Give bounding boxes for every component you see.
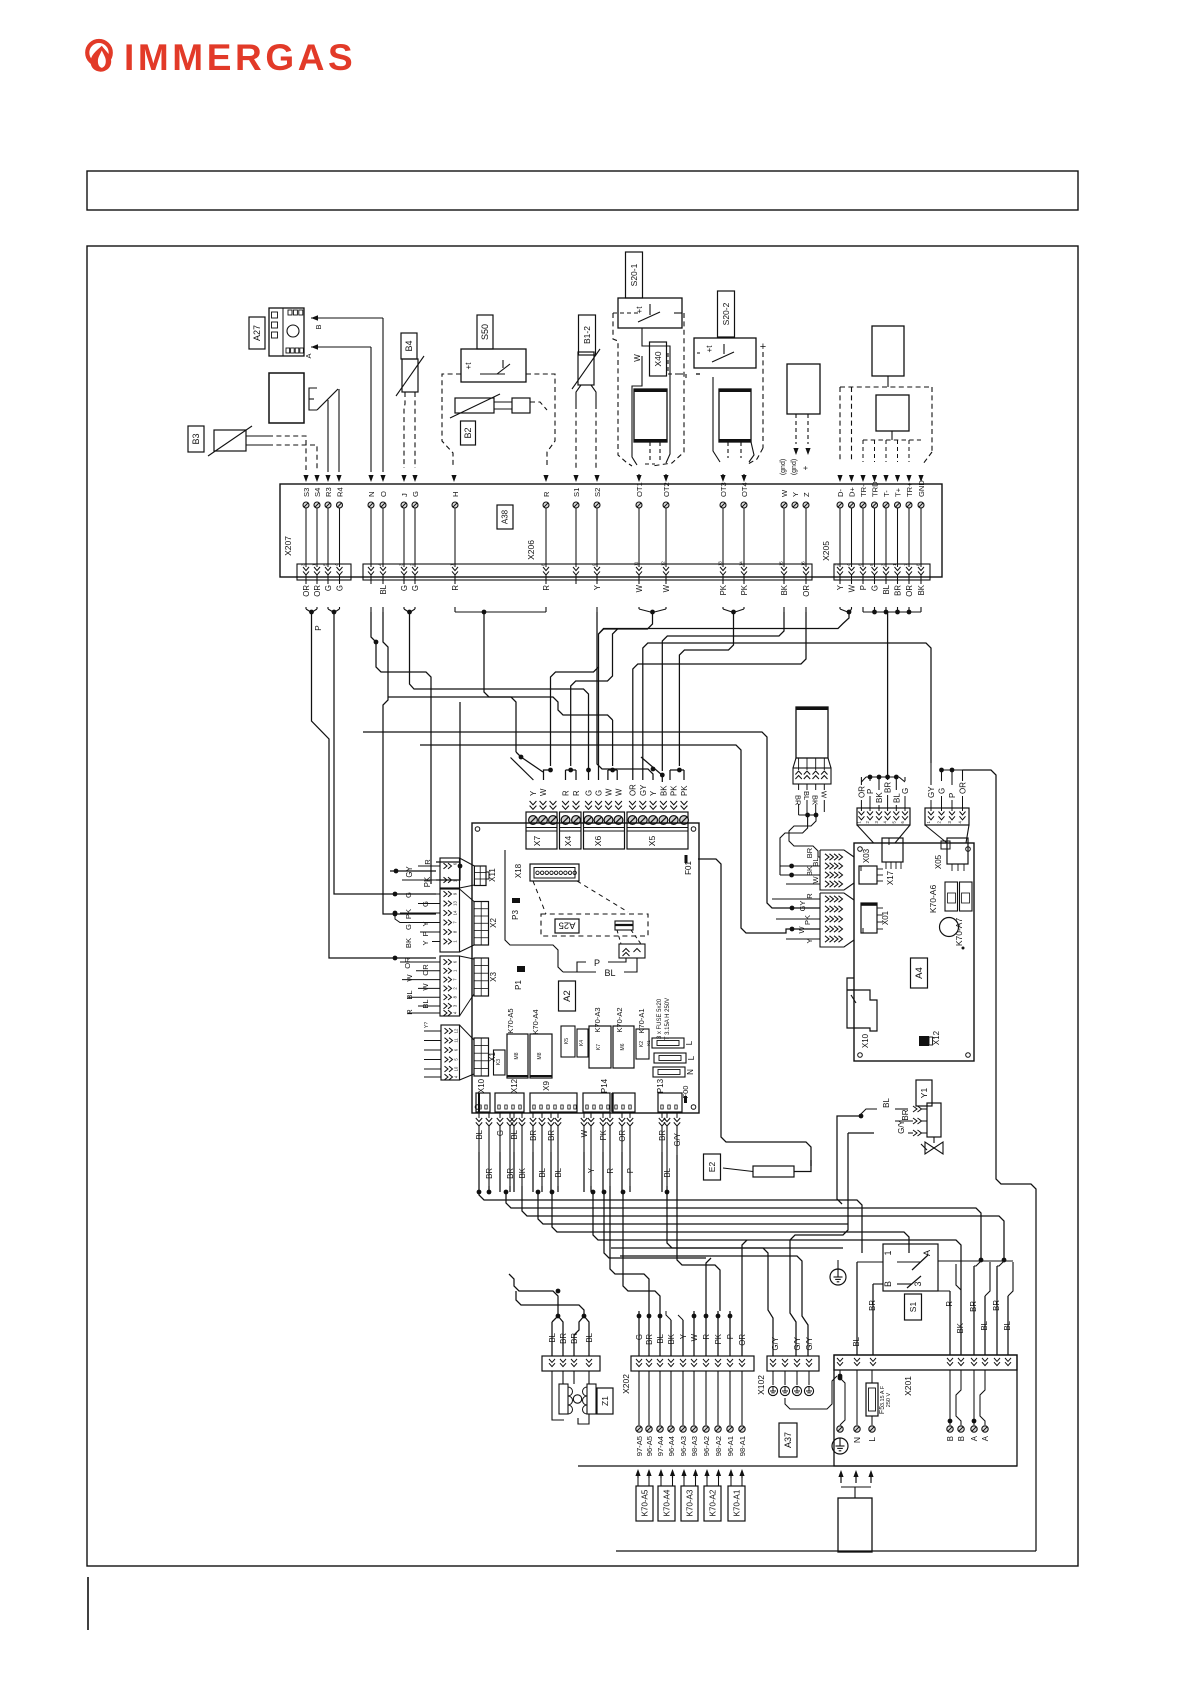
wire OR to X3 xyxy=(312,612,437,958)
svg-text:OT2: OT2 xyxy=(662,482,671,497)
svg-text:BR: BR xyxy=(901,1109,910,1120)
svg-text:96-A2: 96-A2 xyxy=(702,1436,711,1456)
bottom separator lines xyxy=(578,1465,1017,1467)
svg-text:Y1: Y1 xyxy=(919,1088,929,1099)
wire OR to X5 xyxy=(633,612,806,780)
dashed wires B3 to S3 S4 xyxy=(268,436,306,470)
svg-text:BR: BR xyxy=(868,1300,877,1311)
wires G/Y to X102 xyxy=(611,1248,773,1356)
svg-text:(gnd): (gnd) xyxy=(780,459,787,475)
header X1 xyxy=(474,1038,489,1076)
wire X4 R R riser xyxy=(571,629,618,766)
left small bus to Z1 connector xyxy=(509,1274,558,1316)
header X2 xyxy=(474,902,489,946)
svg-text:R: R xyxy=(451,585,460,591)
connector X40 xyxy=(650,342,667,376)
svg-text:W: W xyxy=(662,584,671,592)
relay coil terminals K70-A5..A1 xyxy=(636,1486,653,1521)
svg-text:R: R xyxy=(405,1009,414,1015)
wire A27-B to pin O xyxy=(311,317,383,319)
svg-text:Y: Y xyxy=(791,492,800,497)
svg-text:TRD: TRD xyxy=(870,481,879,497)
svg-text:A25: A25 xyxy=(559,920,576,931)
fuse F3 xyxy=(653,1067,685,1077)
ignition wire junctions xyxy=(860,780,862,782)
wire W pair to X205 riser xyxy=(551,612,653,766)
svg-text:K70-A5: K70-A5 xyxy=(506,1008,515,1033)
header X11 xyxy=(474,866,486,886)
dashed wires to W Y pins xyxy=(795,414,797,444)
bus interface module xyxy=(876,395,909,431)
svg-text:OR: OR xyxy=(802,585,811,597)
svg-text:K70-A5: K70-A5 xyxy=(641,1489,650,1516)
svg-text:O: O xyxy=(379,491,388,497)
junction dots under band xyxy=(305,607,307,609)
svg-text:BL: BL xyxy=(882,584,891,594)
earth terminal left xyxy=(839,1370,841,1378)
svg-text:W: W xyxy=(797,926,806,934)
svg-text:BR: BR xyxy=(645,1334,654,1345)
svg-text:BR: BR xyxy=(969,1301,978,1312)
svg-text:Z1: Z1 xyxy=(600,1396,610,1406)
svg-text:R: R xyxy=(542,585,551,591)
svg-text:G: G xyxy=(595,790,604,796)
connector X01 on A4 xyxy=(861,903,877,933)
svg-text:OR: OR xyxy=(403,957,412,969)
svg-text:12: 12 xyxy=(454,1028,459,1033)
svg-text:BR: BR xyxy=(570,1333,579,1344)
svg-text:K70-A2: K70-A2 xyxy=(709,1489,718,1516)
svg-text:X40: X40 xyxy=(653,351,663,366)
svg-text:B3: B3 xyxy=(191,433,201,444)
svg-text:3 x FUSE 5x20: 3 x FUSE 5x20 xyxy=(657,998,663,1039)
svg-text:K70-A4: K70-A4 xyxy=(663,1489,672,1516)
wire G-G to X6 xyxy=(410,612,589,766)
svg-text:X01: X01 xyxy=(881,910,890,925)
svg-text:P: P xyxy=(859,585,868,590)
svg-text:R: R xyxy=(945,1301,954,1307)
svg-text:S20-2: S20-2 xyxy=(721,302,731,325)
pump connector X10 on A4 xyxy=(847,978,877,1031)
svg-text:OT1: OT1 xyxy=(635,482,644,497)
svg-text:P: P xyxy=(948,793,957,798)
svg-text:GY: GY xyxy=(639,784,648,796)
svg-text:G/Y: G/Y xyxy=(805,1336,814,1350)
fuse F2 xyxy=(654,1053,686,1063)
wire PK pair to X5 xyxy=(679,612,733,766)
svg-text:GND: GND xyxy=(917,480,926,497)
svg-text:K70-A3: K70-A3 xyxy=(593,1007,602,1032)
svg-text:S4: S4 xyxy=(313,488,322,497)
svg-text:X03: X03 xyxy=(862,848,871,863)
svg-text:+t: +t xyxy=(635,306,644,314)
svg-text:P: P xyxy=(726,1334,735,1339)
svg-text:K70-A4: K70-A4 xyxy=(531,1009,540,1034)
svg-text:98-A2: 98-A2 xyxy=(714,1436,723,1456)
svg-text:K70-A2: K70-A2 xyxy=(615,1007,624,1032)
svg-text:A4: A4 xyxy=(914,967,925,979)
controller board A38 xyxy=(280,484,942,577)
strip entry chevrons and labels xyxy=(530,801,537,809)
svg-text:R: R xyxy=(423,859,432,865)
svg-text:P14: P14 xyxy=(600,1078,609,1093)
svg-text:TR+: TR+ xyxy=(905,482,914,497)
svg-text:IMMERGAS: IMMERGAS xyxy=(124,37,356,78)
mains filter Z1 xyxy=(551,1371,553,1384)
ignition PCB A4 outline xyxy=(854,843,974,1061)
long wire right vertical xyxy=(706,1258,711,1311)
svg-text:X6: X6 xyxy=(593,836,603,847)
svg-text:Y: Y xyxy=(836,584,845,590)
A25 flat cable connector xyxy=(615,921,633,930)
svg-text:13: 13 xyxy=(718,561,723,566)
N L terminals xyxy=(856,1370,858,1425)
svg-text:K1: K1 xyxy=(646,1040,651,1046)
dashed enclosure S50/B2 xyxy=(442,374,461,467)
svg-text:B2: B2 xyxy=(463,427,473,438)
svg-text:G: G xyxy=(336,585,345,591)
display module A25 dashed box xyxy=(541,914,648,936)
svg-text:OR: OR xyxy=(629,784,638,796)
svg-text:BK: BK xyxy=(917,584,926,595)
svg-text:B: B xyxy=(957,1436,966,1441)
svg-text:X201: X201 xyxy=(903,1376,913,1396)
svg-text:BR: BR xyxy=(884,782,893,793)
svg-text:W: W xyxy=(633,354,642,362)
svg-text:W: W xyxy=(811,876,820,884)
svg-text:W: W xyxy=(405,974,414,982)
connector X17 on A4 xyxy=(882,838,903,862)
connector P off A25 xyxy=(619,944,645,958)
wire GY to X5 from fan xyxy=(643,643,931,780)
wire R junction to X11 xyxy=(484,612,516,752)
svg-text:G: G xyxy=(411,491,420,497)
svg-text:G: G xyxy=(585,790,594,796)
buzzer K70-A7 xyxy=(940,918,959,937)
room thermostat S20-2 xyxy=(718,291,735,337)
svg-text:P: P xyxy=(314,625,323,631)
svg-text:OR: OR xyxy=(313,585,322,597)
svg-text:R: R xyxy=(562,790,571,796)
wire junctions above X201 xyxy=(979,1258,984,1263)
terminal block X201 and junction box xyxy=(834,1355,1017,1370)
plug block X15 on A4 xyxy=(820,893,854,900)
svg-text:G: G xyxy=(938,788,947,794)
svg-text:A27: A27 xyxy=(252,325,262,341)
wire to pin R4 xyxy=(338,389,340,472)
svg-text:16: 16 xyxy=(801,561,806,566)
svg-text:PK: PK xyxy=(423,876,432,887)
svg-text:BL: BL xyxy=(882,1098,891,1108)
svg-text:PK: PK xyxy=(714,1333,723,1344)
svg-text:X12: X12 xyxy=(510,1078,519,1093)
svg-text:H: H xyxy=(451,492,460,497)
relay K5 xyxy=(561,1026,575,1057)
svg-text:K5: K5 xyxy=(564,1038,570,1044)
svg-text:OR: OR xyxy=(302,585,311,597)
terminal strip X6 xyxy=(584,812,625,849)
connector pin ticks xyxy=(479,1105,481,1109)
svg-text:96-A5: 96-A5 xyxy=(645,1436,654,1456)
mains filter connector X202 xyxy=(542,1356,600,1371)
svg-text:98-A3: 98-A3 xyxy=(690,1436,699,1456)
wire A27-A to pin N xyxy=(311,346,371,348)
svg-text:B: B xyxy=(883,1281,893,1287)
svg-text:X5: X5 xyxy=(647,836,657,847)
safety thermostat S50 xyxy=(477,315,493,349)
svg-text:K70-A1: K70-A1 xyxy=(637,1008,646,1033)
svg-text:BL: BL xyxy=(980,1320,989,1330)
svg-text:Z: Z xyxy=(802,492,811,497)
diagonal feed into X7 xyxy=(511,758,534,781)
svg-text:E2: E2 xyxy=(707,1162,717,1173)
svg-text:G: G xyxy=(871,585,880,591)
svg-text:X202: X202 xyxy=(621,1374,631,1394)
svg-text:X4: X4 xyxy=(563,836,573,847)
svg-text:P1: P1 xyxy=(514,980,523,990)
title frame box xyxy=(87,171,1078,210)
ignition funnel connector xyxy=(857,808,910,825)
svg-text:K70-A3: K70-A3 xyxy=(686,1489,695,1516)
wire to pin R3 xyxy=(327,400,329,472)
svg-text:S20-1: S20-1 xyxy=(629,263,639,286)
svg-text:X205: X205 xyxy=(821,541,831,561)
svg-text:96-A4: 96-A4 xyxy=(667,1436,676,1456)
svg-text:G/Y: G/Y xyxy=(771,1336,780,1350)
svg-text:GY: GY xyxy=(927,786,936,798)
status led P1 xyxy=(517,966,525,972)
svg-text:A2: A2 xyxy=(562,990,573,1002)
svg-text:OT4: OT4 xyxy=(740,482,749,497)
svg-text:L: L xyxy=(687,1055,696,1060)
svg-text:X11: X11 xyxy=(488,868,497,882)
connector X18 xyxy=(530,864,579,881)
svg-text:11: 11 xyxy=(634,561,639,566)
svg-text:BK: BK xyxy=(667,1333,676,1344)
svg-text:PK: PK xyxy=(680,785,689,796)
svg-text:+: + xyxy=(801,465,810,470)
svg-text:A: A xyxy=(922,1250,932,1256)
svg-text:BL: BL xyxy=(548,1332,557,1342)
svg-text:S50: S50 xyxy=(480,324,490,340)
svg-text:S3: S3 xyxy=(302,488,311,497)
A38 pin terminals xyxy=(303,502,309,508)
svg-text:S2: S2 xyxy=(593,488,602,497)
svg-text:X05: X05 xyxy=(934,854,943,869)
svg-text:1: 1 xyxy=(883,1250,893,1255)
wires down to X202 xyxy=(638,1311,640,1356)
svg-text:BK: BK xyxy=(956,1322,965,1333)
svg-text:BR: BR xyxy=(805,847,814,858)
svg-text:J: J xyxy=(400,493,409,497)
svg-text:BL: BL xyxy=(585,1332,594,1342)
flow probe B1-2 xyxy=(579,315,596,355)
svg-text:X18: X18 xyxy=(514,863,523,878)
R-R junction bus xyxy=(454,607,456,612)
header X3 xyxy=(474,958,489,996)
svg-text:+: + xyxy=(760,341,766,353)
wire BL from A25 plug xyxy=(624,958,637,972)
svg-text:250 V: 250 V xyxy=(886,1392,892,1407)
plug block X1 xyxy=(441,1025,460,1080)
svg-text:15: 15 xyxy=(779,561,784,566)
svg-text:W: W xyxy=(819,791,828,799)
horizontal bus lines xyxy=(479,1192,862,1253)
svg-text:T-: T- xyxy=(882,490,891,497)
svg-text:X10: X10 xyxy=(861,1033,870,1048)
svg-text:P: P xyxy=(594,958,600,968)
svg-text:TR-: TR- xyxy=(859,484,868,497)
svg-text:Y: Y xyxy=(649,790,658,796)
svg-text:K4: K4 xyxy=(579,1040,585,1046)
connector X205 pin row xyxy=(834,564,930,580)
svg-text:96-A3: 96-A3 xyxy=(679,1436,688,1456)
svg-text:Y: Y xyxy=(679,1333,688,1339)
svg-text:BL: BL xyxy=(811,857,820,866)
wire G to X2 xyxy=(334,612,436,894)
svg-text:G/Y: G/Y xyxy=(897,1119,906,1133)
svg-text:G: G xyxy=(635,1334,644,1340)
terminal strip X5 xyxy=(627,812,688,849)
wire W from S20-1 via X40 xyxy=(642,328,670,463)
wire BL down-left xyxy=(383,612,436,914)
svg-text:G: G xyxy=(404,924,413,930)
boiler switch S1 xyxy=(883,1244,938,1291)
wire P from A25 plug xyxy=(608,958,626,962)
svg-text:97-A4: 97-A4 xyxy=(656,1436,665,1456)
svg-text:X102: X102 xyxy=(756,1375,766,1395)
connector block of S20-2 xyxy=(719,389,751,442)
svg-text:G: G xyxy=(324,585,333,591)
svg-text:G: G xyxy=(411,585,420,591)
wire Y to X5 xyxy=(597,612,653,780)
svg-text:11: 11 xyxy=(454,1038,459,1043)
pin row chevrons and wire colour labels xyxy=(303,567,309,575)
connector X207 pin row xyxy=(297,564,351,580)
svg-text:BL: BL xyxy=(892,793,901,803)
svg-text:(gnd): (gnd) xyxy=(791,459,798,475)
svg-text:OR: OR xyxy=(959,782,968,794)
svg-text:W: W xyxy=(421,983,430,991)
svg-text:BL: BL xyxy=(421,999,430,1008)
fuse F5 xyxy=(866,1383,878,1416)
room thermostat S20-1 xyxy=(626,252,643,298)
svg-text:PK: PK xyxy=(670,785,679,796)
svg-text:K2: K2 xyxy=(639,1041,645,1047)
svg-text:N: N xyxy=(686,1069,695,1075)
svg-text:GY: GY xyxy=(405,866,414,878)
svg-text:X2: X2 xyxy=(489,918,498,928)
long wire to E2 region xyxy=(698,859,811,1166)
svg-text:A37: A37 xyxy=(783,1432,793,1448)
svg-text:K3: K3 xyxy=(496,1059,502,1065)
svg-text:W: W xyxy=(780,489,789,497)
flue probe B2 xyxy=(461,421,476,445)
X205 junction bus xyxy=(862,607,864,612)
svg-text:A: A xyxy=(970,1435,979,1441)
led X12 on A4 xyxy=(919,1036,929,1046)
wires S20-2 xyxy=(668,353,679,374)
cascade interface module xyxy=(787,364,820,414)
terminal strip X4 xyxy=(560,812,582,849)
svg-text:L: L xyxy=(867,1437,877,1442)
riser to X205 Y/W xyxy=(599,612,850,634)
svg-text:X12: X12 xyxy=(932,1030,941,1045)
wires above X201 xyxy=(856,1262,858,1355)
svg-text:N: N xyxy=(852,1437,862,1443)
svg-text:X10: X10 xyxy=(477,1078,486,1093)
svg-text:N: N xyxy=(367,492,376,497)
svg-text:X206: X206 xyxy=(526,540,536,560)
svg-text:W: W xyxy=(615,788,624,796)
svg-text:BR: BR xyxy=(894,585,903,596)
svg-text:K70-A7: K70-A7 xyxy=(954,918,964,947)
svg-text:P: P xyxy=(866,789,875,794)
wire BK to X5 xyxy=(662,612,784,771)
svg-text:S1: S1 xyxy=(572,488,581,497)
fan funnel connector xyxy=(925,808,969,825)
svg-text:M8: M8 xyxy=(537,1052,543,1059)
wires to Y1 xyxy=(861,1109,877,1116)
bottom-left tick xyxy=(87,1577,89,1630)
wires leaving A2 bottom xyxy=(476,1118,482,1126)
wire X205 bus down xyxy=(887,612,889,777)
X102 earth symbols xyxy=(772,1371,774,1385)
earth connector X102 xyxy=(767,1356,819,1371)
svg-text:14: 14 xyxy=(453,910,458,915)
svg-text:A: A xyxy=(981,1435,990,1441)
terminal strip X7 xyxy=(526,812,557,849)
valve symbol xyxy=(933,1137,935,1143)
svg-text:M8: M8 xyxy=(514,1052,520,1059)
svg-text:B4: B4 xyxy=(404,340,414,351)
plug block X3 xyxy=(440,956,460,1016)
plug block X11 xyxy=(440,858,460,888)
svg-text:BK: BK xyxy=(811,795,820,805)
svg-text:X7: X7 xyxy=(532,836,542,847)
svg-text:D-: D- xyxy=(836,489,845,497)
svg-text:G: G xyxy=(404,892,413,898)
svg-text:R: R xyxy=(702,1334,711,1340)
svg-text:OT3: OT3 xyxy=(719,482,728,497)
wires B1-2 to S1 S2 xyxy=(576,385,581,404)
svg-text:L: L xyxy=(685,1040,694,1045)
svg-text:98-A1: 98-A1 xyxy=(738,1436,747,1456)
X201 pin chevrons xyxy=(837,1358,843,1366)
svg-text:OR: OR xyxy=(738,1334,747,1346)
svg-text:X3: X3 xyxy=(489,972,498,982)
flow switch E contact xyxy=(309,388,317,410)
svg-text:D+: D+ xyxy=(847,487,856,497)
svg-text:A: A xyxy=(304,353,313,358)
svg-text:G: G xyxy=(901,788,910,794)
connector X206 pin row xyxy=(363,564,812,580)
programmer clock box xyxy=(269,373,304,423)
svg-text:X9: X9 xyxy=(542,1081,551,1091)
svg-text:R3: R3 xyxy=(324,487,333,497)
svg-text:97-A5: 97-A5 xyxy=(635,1436,644,1456)
svg-text:X207: X207 xyxy=(283,536,293,556)
svg-text:PK: PK xyxy=(740,584,749,595)
svg-text:G/Y: G/Y xyxy=(793,1336,802,1350)
flame sensor wires to A4 X13 xyxy=(780,815,808,875)
svg-text:96-A1: 96-A1 xyxy=(726,1436,735,1456)
svg-text:Y: Y xyxy=(593,584,602,590)
svg-text:BL: BL xyxy=(379,584,388,594)
svg-text:B: B xyxy=(314,324,323,329)
svg-text:K70-A1: K70-A1 xyxy=(733,1489,742,1516)
svg-text:A38: A38 xyxy=(501,509,510,524)
